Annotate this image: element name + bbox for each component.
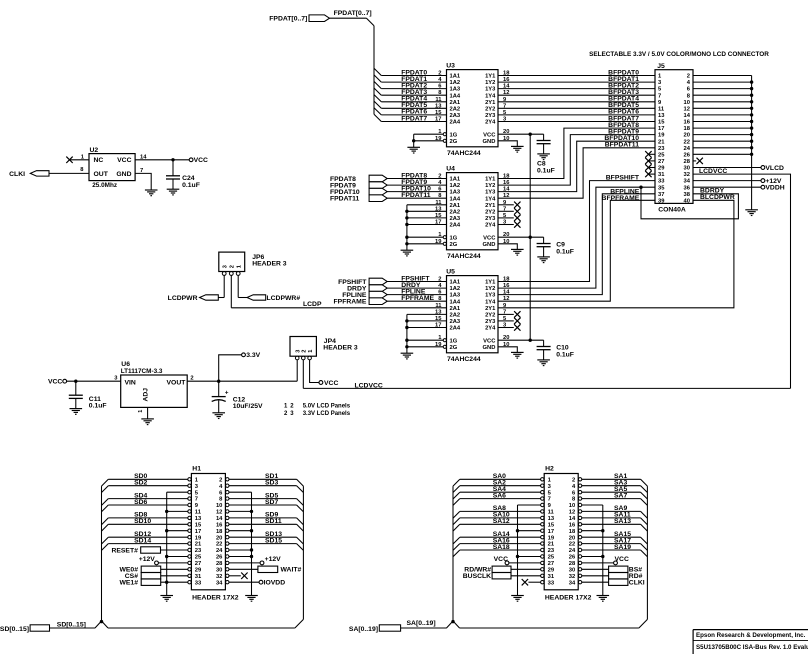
no-connect X on U2 pin 1 (66, 157, 72, 163)
JP6 pin 2 circle (229, 272, 233, 276)
svg-text:1Y1: 1Y1 (485, 177, 496, 183)
svg-text:1A4: 1A4 (450, 299, 461, 305)
bus entry SA13 (641, 524, 648, 531)
H2 pin 20 circle (578, 536, 581, 539)
wire H1 pin 10 to SD7 (229, 504, 297, 506)
ground at H2 right tie (597, 595, 610, 597)
svg-text:0.1uF: 0.1uF (182, 182, 200, 189)
resistor block BS# (609, 566, 628, 572)
U4 2Y1 no-connect stub (498, 204, 514, 206)
junction at U6 output (217, 380, 220, 383)
H1 pin 33 circle (188, 581, 191, 584)
svg-text:VOUT: VOUT (167, 380, 187, 387)
svg-text:2A3: 2A3 (450, 113, 461, 119)
ground at U6 ADJ (141, 418, 154, 420)
H2 pin 6 circle (578, 491, 581, 494)
wire U2 VCC pin 14 to VCC terminal (135, 159, 189, 161)
wire VCC to H2 pin 27 (509, 562, 541, 564)
H1 pin 8 circle (226, 497, 229, 500)
regulator U6 LT1117CM-3.3 body (121, 375, 188, 407)
VCC distribution rail (529, 134, 531, 340)
H2 pin 31 circle (541, 574, 544, 577)
wire VCC to U6 VIN pin 3 (67, 380, 121, 382)
svg-text:2A1: 2A1 (450, 306, 461, 312)
H2 pin 1 circle (541, 478, 544, 481)
wire U5 2Y1 to J5 pin40 (BLCDPWR) (498, 200, 734, 307)
resistor block CS# (141, 573, 161, 579)
svg-text:2Y1: 2Y1 (485, 100, 496, 106)
wire SD8 to H1 pin 13 (108, 517, 188, 519)
wire SD14 to H1 pin 21 (108, 543, 188, 545)
wire U3 1Y/2Y output to J5 (BFPDAT2) (498, 88, 655, 90)
svg-text:SA12: SA12 (493, 518, 510, 525)
JP6 pin3 lead (223, 275, 225, 297)
U6 ADJ pin 1 lead (147, 407, 149, 419)
wire H1 pin 34 to IOVDD (229, 581, 259, 583)
H1 pin 13 circle (188, 516, 191, 519)
SD data bus left vertical (101, 486, 103, 621)
+12V terminal at H1 left (155, 561, 159, 565)
JP4 pin 2 circle (302, 356, 306, 360)
wire J5 pin 2 to ground bus (693, 75, 752, 77)
wire SA2 to H2 pin 3 (460, 485, 541, 487)
svg-text:19: 19 (658, 133, 665, 139)
svg-text:SD15: SD15 (265, 537, 282, 544)
bus entry SD12 (102, 537, 109, 544)
wire FPSHIFT to U5 1A1 (387, 281, 446, 283)
H1 right ground tie (229, 491, 252, 493)
bus entry FPDAT2 (374, 81, 381, 88)
port FPDAT8 (369, 175, 387, 182)
H1 pin 27 circle (188, 561, 191, 564)
svg-text:34: 34 (569, 580, 576, 586)
wire 3.3V branch (219, 355, 242, 381)
svg-text:12: 12 (216, 510, 222, 516)
wire H2 pin 28 to VCC (582, 562, 614, 564)
port FPDAT[0..7] (309, 15, 330, 22)
bus entry FPDAT1 (374, 75, 381, 82)
VLCD terminal (761, 166, 765, 170)
H1 pin 34 circle (226, 581, 229, 584)
svg-text:31: 31 (195, 574, 202, 580)
svg-text:H2: H2 (545, 465, 554, 472)
svg-text:FPDAT[0..7]: FPDAT[0..7] (334, 10, 372, 17)
U3 1G bubble pin 1 (443, 133, 446, 136)
H1 pin 20 circle (226, 536, 229, 539)
wire CS# to H1 pin 31 (161, 575, 188, 577)
H2 pin 28 circle (578, 561, 581, 564)
wire H2 pin 20 to SA15 (582, 536, 641, 538)
U5 2A2-2A4 + enables ground tie (407, 313, 447, 315)
SD bus bottom (108, 627, 295, 629)
svg-text:38: 38 (684, 192, 691, 198)
wire H2 pin 2 to SA1 (582, 478, 641, 480)
svg-text:17: 17 (548, 529, 554, 535)
H2 pin 17 circle (541, 529, 544, 532)
svg-text:10: 10 (684, 100, 690, 106)
bus FPDAT vertical (373, 26, 375, 115)
port LCDPWR# (247, 295, 266, 300)
ground at U4 tie (401, 249, 414, 251)
svg-text:2: 2 (438, 71, 441, 77)
wire H2 pin 22 to SA17 (582, 543, 641, 545)
H2 pin 25 circle (541, 555, 544, 558)
H1 pin 26 circle (226, 555, 229, 558)
svg-text:2G: 2G (450, 139, 458, 145)
svg-text:U4: U4 (446, 166, 455, 173)
U4 2A1-2A4 + enables ground tie (407, 204, 447, 206)
svg-text:17: 17 (658, 126, 664, 132)
svg-text:37: 37 (658, 192, 664, 198)
svg-text:32: 32 (216, 574, 222, 580)
H2 pin 23 circle (541, 548, 544, 551)
H2 pin 24 circle (578, 548, 581, 551)
H2 pin 18 circle (578, 529, 581, 532)
resistor block WE1# (141, 579, 161, 585)
svg-text:NC: NC (94, 157, 104, 164)
svg-text:26: 26 (684, 152, 691, 158)
bus entry SD14 (102, 544, 109, 551)
H1 pin 2 circle (226, 478, 229, 481)
+12V terminal at H1 right (260, 561, 264, 565)
svg-text:10: 10 (569, 503, 575, 509)
bus entry FPDAT6 (374, 108, 381, 115)
wire H1 pin 30 to WAIT# (229, 568, 258, 570)
ground at H2 left tie (511, 595, 524, 597)
JP6 pin 3 circle (222, 272, 226, 276)
svg-text:12: 12 (684, 106, 690, 112)
svg-text:2G: 2G (450, 242, 458, 248)
bus entry SD5 (297, 499, 304, 506)
H2 pin 3 circle (541, 484, 544, 487)
svg-text:27: 27 (195, 561, 201, 567)
svg-text:1: 1 (236, 265, 242, 268)
svg-text:OUT: OUT (94, 171, 109, 178)
svg-text:VCC: VCC (48, 379, 62, 386)
wire J5 pin 22 to ground bus (693, 140, 752, 142)
wire FPDAT3 to U3 1A4 (381, 94, 446, 96)
svg-text:1A4: 1A4 (450, 196, 461, 202)
svg-text:10uF/25V: 10uF/25V (233, 403, 263, 410)
U5 2Y4 no-connect stub (498, 327, 514, 329)
svg-text:SA13: SA13 (614, 518, 631, 525)
svg-text:34: 34 (216, 580, 223, 586)
bus entry SD7 (297, 505, 304, 512)
svg-text:2A3: 2A3 (450, 216, 461, 222)
svg-text:U5: U5 (446, 269, 455, 276)
bus entry SA3 (641, 486, 648, 493)
+12V terminal at J5 (761, 179, 765, 183)
svg-text:VDDH: VDDH (765, 185, 784, 192)
svg-text:SD14: SD14 (134, 537, 151, 544)
resistor block RESET# (141, 547, 161, 553)
H1 pin 1 circle (188, 478, 191, 481)
wire SD6 to H1 pin 9 (108, 504, 188, 506)
U3 1G/2G tie wire (414, 133, 443, 135)
VCC terminal at U2 (189, 158, 193, 162)
svg-text:26: 26 (569, 555, 576, 561)
U4 GND pin 10 wire (498, 244, 517, 250)
H1 pin 30 circle (226, 568, 229, 571)
resistor block WAIT# (258, 566, 278, 572)
wire J5 pin 20 to ground bus (693, 134, 752, 136)
bus corner diagonal (367, 18, 375, 26)
wire J5 pin 24 to ground bus (693, 147, 752, 149)
wire H1 pin 8 to SD5 (229, 498, 297, 500)
wire H1 pin 17 to tie (167, 530, 188, 532)
svg-text:33: 33 (195, 580, 202, 586)
svg-text:20: 20 (216, 535, 222, 541)
H2 pin 30 circle (578, 568, 581, 571)
svg-text:2Y2: 2Y2 (485, 313, 495, 319)
wire J5 pin32 LCDVCC down to JP4 (693, 174, 791, 388)
U3 GND pin 10 wire (498, 141, 517, 147)
H1 pin 28 circle (226, 561, 229, 564)
svg-text:GND: GND (483, 345, 496, 351)
wire H2 pin 8 to SA7 (582, 498, 641, 500)
H1 pin 14 circle (226, 516, 229, 519)
U5 VCC pin 20 wire (498, 339, 544, 341)
bus entry SA6 (453, 499, 460, 506)
wire H2 pin 12 to SA9 (582, 510, 641, 512)
svg-text:17: 17 (195, 529, 201, 535)
wire H1 pin 25 to tie (167, 556, 188, 558)
svg-text:2Y4: 2Y4 (485, 223, 496, 229)
port FPLINE (369, 291, 387, 298)
svg-text:22: 22 (569, 542, 575, 548)
VDDH terminal (761, 185, 765, 189)
wire U3 1Y/2Y output to J5 (BFPDAT7) (498, 121, 655, 123)
svg-text:SD11: SD11 (265, 518, 282, 525)
svg-text:SA[0..19]: SA[0..19] (407, 620, 436, 627)
H2 pin 22 circle (578, 542, 581, 545)
H2 pin 4 circle (578, 484, 581, 487)
bus entry SD15 (297, 544, 304, 551)
ground at U4 GND (511, 248, 524, 250)
wire U4 1Y1 to J5 pin 17 (BFPDAT8) (498, 128, 655, 178)
wire FPDAT1 to U3 1A2 (381, 81, 446, 83)
VCC terminal at U6 input (63, 379, 67, 383)
svg-text:VCC: VCC (324, 380, 338, 387)
svg-text:SA6: SA6 (493, 492, 506, 499)
H1 pin 15 circle (188, 523, 191, 526)
bus entry SA8 (453, 511, 460, 518)
bus entry SA5 (641, 492, 648, 499)
wire RD/WR# to H2 pin 29 (511, 568, 541, 570)
svg-text:SA19: SA19 (614, 544, 631, 551)
H2 left ground tie (518, 504, 541, 506)
svg-text:VCC: VCC (483, 132, 496, 138)
wire H2 pin 26 to tie (582, 556, 603, 558)
H1 pin 9 circle (188, 503, 191, 506)
svg-text:3: 3 (295, 350, 301, 353)
svg-text:16: 16 (684, 120, 691, 126)
svg-text:29: 29 (195, 567, 202, 573)
ground at J5 bus (745, 209, 758, 211)
JP6 pin 1 circle (236, 272, 240, 276)
SA address bus left vertical (452, 486, 454, 621)
ground at U3 enables (407, 146, 420, 148)
svg-text:LT1117CM-3.3: LT1117CM-3.3 (121, 368, 163, 375)
svg-text:1A3: 1A3 (450, 190, 461, 196)
connector J5 CON40A body (655, 70, 693, 204)
svg-text:23: 23 (658, 146, 665, 152)
wire U4 1Y4 to J5 pin 23 (BFPDAT11) (498, 148, 655, 198)
svg-text:25: 25 (195, 555, 202, 561)
svg-text:11: 11 (548, 510, 555, 516)
svg-text:18: 18 (569, 529, 576, 535)
H2 right ground tie (582, 504, 603, 506)
H1 pin 12 circle (226, 510, 229, 513)
svg-text:H1: H1 (192, 465, 201, 472)
svg-text:1Y1: 1Y1 (485, 280, 496, 286)
wire BUSCLK to H2 pin 31 (511, 575, 541, 577)
svg-text:HEADER 3: HEADER 3 (252, 261, 287, 268)
port SD[0..15] (30, 625, 49, 631)
VCC terminal at H2 left (505, 561, 509, 565)
H1 pin 25 circle (188, 555, 191, 558)
wire H1 pin 22 to SD15 (229, 543, 297, 545)
svg-text:2Y3: 2Y3 (485, 216, 496, 222)
svg-text:19: 19 (548, 535, 555, 541)
wire FPDAT10 to U4 1A3 (387, 191, 446, 193)
wire J5 pin30 to VLCD terminal (693, 167, 761, 169)
svg-text:2: 2 (190, 376, 193, 382)
svg-text:SD7: SD7 (265, 499, 278, 506)
H1 pin 11 circle (188, 510, 191, 513)
svg-text:40: 40 (684, 198, 690, 204)
svg-text:FPDAT[0..7]: FPDAT[0..7] (269, 16, 307, 23)
svg-text:10: 10 (216, 503, 222, 509)
svg-text:GND: GND (116, 171, 131, 178)
capacitor C24 (172, 160, 174, 176)
svg-text:CON40A: CON40A (658, 206, 686, 213)
svg-text:LCDPWR#: LCDPWR# (267, 295, 301, 302)
svg-text:2: 2 (230, 265, 236, 268)
bus entry SA17 (641, 544, 648, 551)
svg-text:74AHC244: 74AHC244 (447, 253, 481, 260)
H1 pin 23 circle (188, 548, 191, 551)
wire FPDAT bus from port (330, 17, 367, 19)
svg-text:30: 30 (684, 166, 690, 172)
svg-text:2A4: 2A4 (450, 223, 461, 229)
bus entry SD1 (297, 479, 304, 486)
svg-text:SD10: SD10 (134, 518, 151, 525)
wire FPLINE to U5 1A3 (387, 294, 446, 296)
svg-text:20: 20 (684, 133, 690, 139)
svg-text:1A1: 1A1 (450, 74, 461, 80)
header H2 17x2 body (544, 474, 578, 590)
svg-text:2Y2: 2Y2 (485, 209, 495, 215)
capacitor C11 (75, 381, 77, 395)
H2 pin 7 circle (541, 497, 544, 500)
bus entry SD11 (297, 524, 304, 531)
port FPDAT10 (369, 188, 387, 195)
wire FPDAT8 to U4 1A1 (387, 178, 446, 180)
wire SA bus to port (401, 627, 447, 629)
wire H2 pin 6 to SA5 (582, 491, 641, 493)
svg-text:11: 11 (435, 97, 442, 103)
wire DRDY to U5 1A2 (387, 287, 446, 289)
wire U6 VOUT pin 2 to JP4 pin3 (187, 380, 297, 382)
svg-text:14: 14 (216, 516, 223, 522)
bus entry SA14 (453, 537, 460, 544)
svg-text:23: 23 (548, 548, 555, 554)
H2 pin 5 circle (541, 491, 544, 494)
svg-text:2Y4: 2Y4 (485, 120, 496, 126)
svg-text:33: 33 (548, 580, 555, 586)
svg-text:SD3: SD3 (265, 480, 278, 487)
svg-text:2Y3: 2Y3 (485, 319, 496, 325)
port FPSHIFT (369, 278, 387, 285)
H1 pin 24 circle (226, 548, 229, 551)
H2 pin 34 circle (578, 581, 581, 584)
port FPDAT9 (369, 182, 387, 189)
junction on U3 G tie (412, 139, 415, 142)
H1 pin 22 circle (226, 542, 229, 545)
svg-text:CLKI: CLKI (629, 580, 645, 587)
svg-text:2G: 2G (450, 345, 458, 351)
svg-text:17: 17 (435, 117, 441, 123)
wire FPFRAME to U5 1A4 (387, 300, 446, 302)
svg-text:7: 7 (195, 497, 198, 503)
J5 unused left pins 25-31 no-connect X marks (648, 153, 655, 155)
H2 pin 2 circle (578, 478, 581, 481)
svg-text:LCDVCC: LCDVCC (355, 382, 383, 389)
svg-text:2Y1: 2Y1 (485, 203, 496, 209)
bus entry SA12 (453, 524, 460, 531)
svg-text:32: 32 (569, 574, 575, 580)
SA bus bottom (460, 627, 639, 629)
bus entry FPDAT7 (374, 114, 381, 121)
svg-text:25: 25 (658, 152, 665, 158)
U3 VCC pin 20 wire (498, 133, 544, 135)
svg-text:1: 1 (138, 410, 144, 413)
H1 pin 4 circle (226, 484, 229, 487)
H2 pin 21 circle (541, 542, 544, 545)
U2 pin 1 stub (no connect) (70, 159, 90, 161)
wire H1 pin 16 to SD11 (229, 523, 297, 525)
svg-text:WAIT#: WAIT# (281, 567, 302, 574)
SD bus right vertical (302, 486, 304, 619)
wire FPDAT11 to U4 1A4 (387, 197, 446, 199)
port FPDAT11 (369, 195, 387, 202)
wire U5 1Y3 to J5 pin 37 (498, 194, 655, 295)
svg-text:BLCDPWR: BLCDPWR (700, 194, 735, 201)
wire FPDAT0 to U3 1A1 (381, 75, 446, 77)
svg-text:15: 15 (195, 522, 202, 528)
svg-text:Epson Research & Development,: Epson Research & Development, Inc. (696, 632, 806, 639)
port FPFRAME (369, 298, 387, 305)
svg-text:U3: U3 (446, 63, 455, 70)
svg-text:2A1: 2A1 (450, 100, 461, 106)
svg-text:GND: GND (483, 139, 496, 145)
bus entry SD2 (102, 486, 109, 493)
wire SD2 to H1 pin 3 (108, 485, 188, 487)
wire H2 pin 4 to SA3 (582, 485, 641, 487)
svg-text:20: 20 (569, 535, 575, 541)
wire J5 pin 4 to ground bus (693, 81, 752, 83)
wire H2 pin 25 to tie (518, 556, 541, 558)
svg-text:1A2: 1A2 (450, 80, 461, 86)
H2 pin 8 circle (578, 497, 581, 500)
wire J5 pin36 to VDDH terminal (693, 186, 761, 188)
H2 pin 32 circle (578, 574, 581, 577)
capacitor C9 (543, 237, 545, 243)
svg-text:30: 30 (569, 567, 575, 573)
wire FPDAT7 to U3 2A4 (381, 121, 446, 123)
bus entry SA18 (453, 550, 460, 557)
